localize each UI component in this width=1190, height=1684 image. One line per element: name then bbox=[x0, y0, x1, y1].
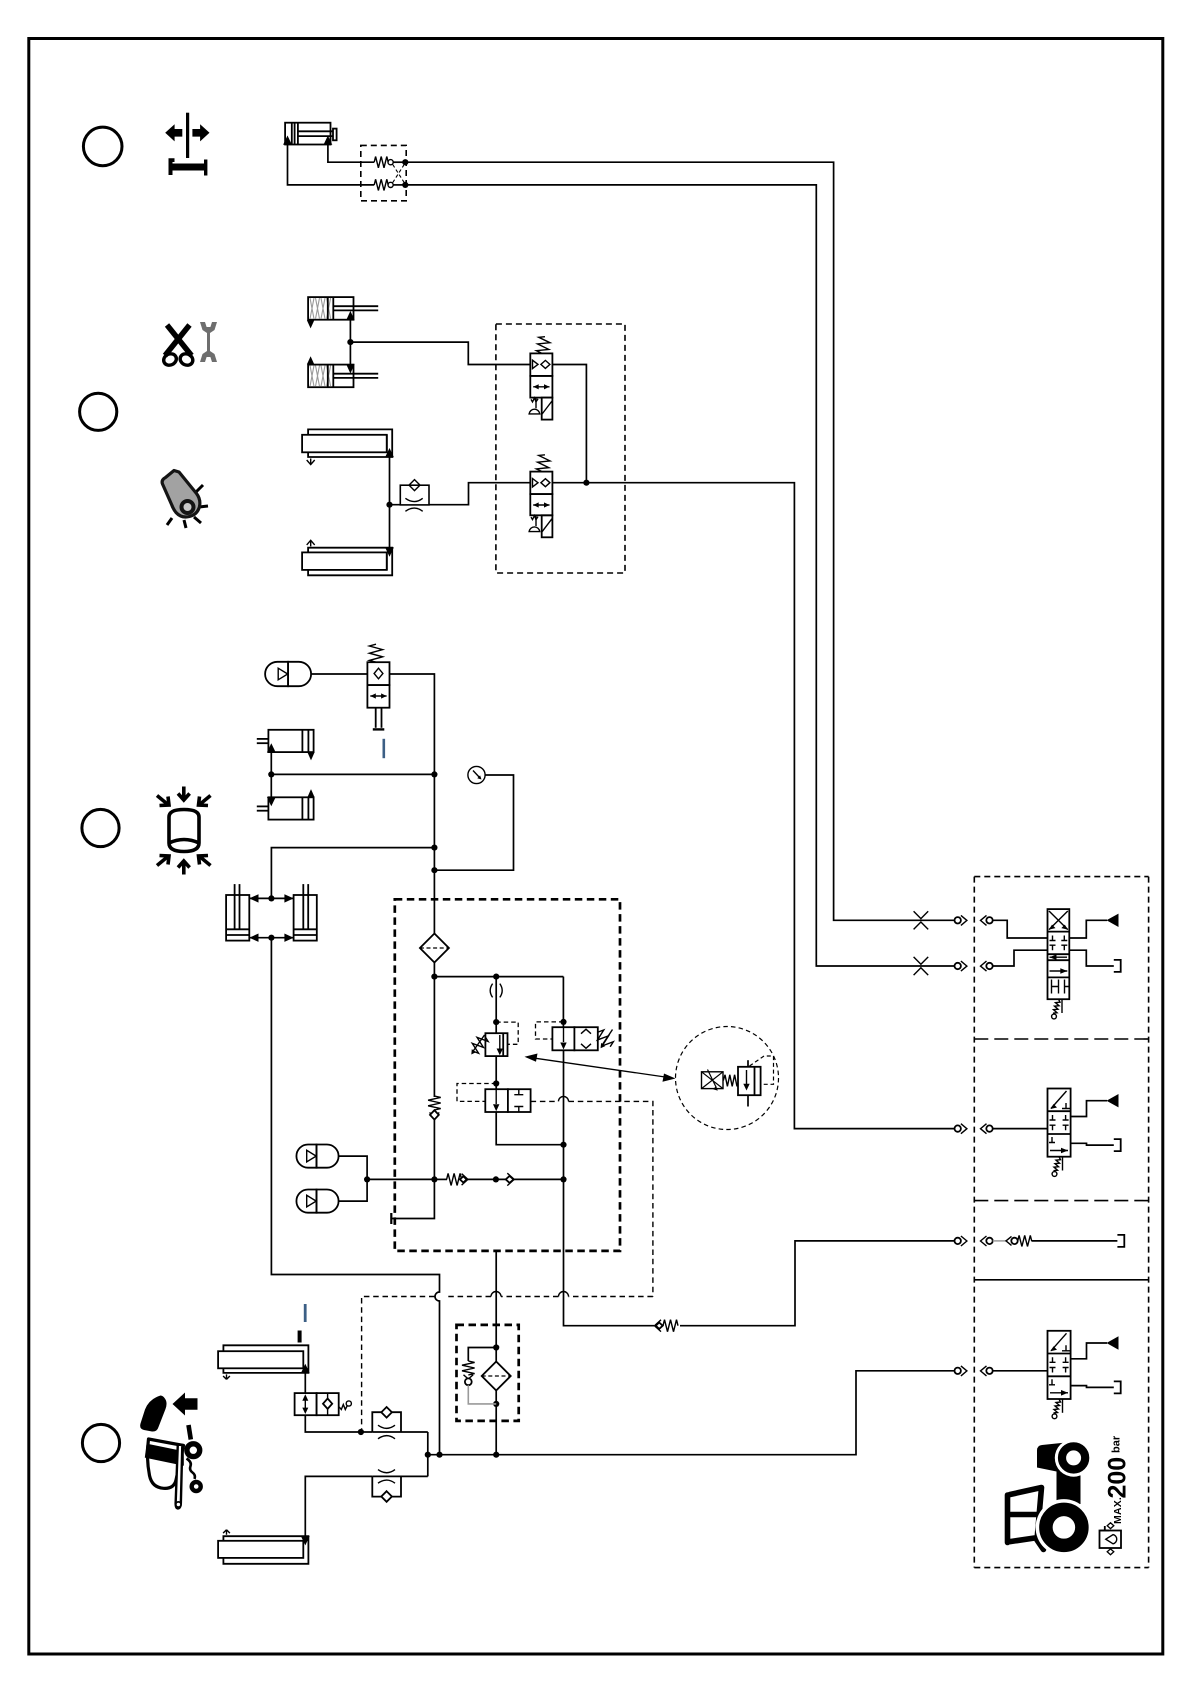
wire: section2 to tractor valve B2 bbox=[552, 483, 954, 1129]
wire: branch down through throttle bbox=[495, 977, 497, 1034]
MAX 200 bar text bbox=[1104, 1435, 1132, 1524]
cylinder C3d (right vertical) bbox=[294, 884, 317, 941]
accumulators A2/A3 bbox=[296, 1145, 338, 1168]
wire: riser branch to vertical pair bbox=[271, 848, 434, 899]
wire: V5 down to junction bbox=[305, 1415, 372, 1432]
wire: bridge to tractor box B4 bbox=[428, 1371, 955, 1455]
dashed enclosure: double pilot check valve block bbox=[361, 145, 406, 200]
coupling pictogram bbox=[1100, 1523, 1122, 1555]
svg-text:MAX.: MAX. bbox=[1112, 1497, 1124, 1524]
wire: accumulators to manifold bbox=[339, 1156, 367, 1201]
black tick bbox=[298, 1331, 302, 1343]
detail circle (proportional relief valve) bbox=[676, 1027, 779, 1130]
cylinder C5b (bottom) bbox=[218, 1530, 310, 1564]
wire: A1 to relief valve bbox=[311, 673, 367, 675]
big ram C2d (lower) bbox=[302, 540, 394, 575]
blue mark 1 bbox=[382, 739, 385, 758]
filter box F2 (thick dashed) bbox=[457, 1325, 519, 1421]
cylinder C2a (spring return knife cyl) bbox=[307, 297, 378, 328]
blue mark 2 bbox=[304, 1304, 307, 1322]
cylinder C3a bbox=[257, 730, 315, 761]
wire: pair bottom to lower frame bbox=[271, 938, 439, 1455]
wire: V2a out to junction bbox=[552, 365, 586, 483]
cylinder C3b bbox=[257, 789, 315, 820]
svg-text:bar: bar bbox=[1111, 1435, 1123, 1453]
tractor spool valve B4 bbox=[1048, 1331, 1071, 1419]
wire: B2 to pump triangle bbox=[1071, 1101, 1107, 1117]
pressure gauge G1 bbox=[468, 766, 485, 783]
function circle 3 bbox=[82, 809, 119, 846]
check+spring CK4 bbox=[655, 1241, 955, 1332]
callout arrow bbox=[525, 1054, 676, 1082]
wire: C-bridge bbox=[427, 1432, 429, 1476]
wire through filter bbox=[495, 1251, 497, 1455]
wire: PRV down to LV node bbox=[495, 1056, 497, 1089]
icon: bale compress bbox=[157, 787, 211, 875]
relief/charge valve V3 bbox=[367, 644, 389, 729]
quick couplings line3 (B2) bbox=[955, 1124, 1048, 1134]
check valve with spring CK1 (riser) bbox=[428, 977, 441, 1180]
icon: bale cylinder bbox=[169, 810, 199, 852]
cylinder C1 (top side-shift cylinder) bbox=[283, 123, 337, 145]
cylinder C5a (top) bbox=[218, 1345, 310, 1379]
svg-text:200: 200 bbox=[1104, 1457, 1132, 1499]
wire: B1 to pump triangle bbox=[1069, 920, 1107, 938]
X break marks on S1 lines bbox=[914, 911, 929, 975]
wire: C1 rod-side port to crossover valve lower line bbox=[288, 145, 375, 185]
wire: V3 to main riser bbox=[390, 674, 435, 934]
filter F1 bbox=[420, 934, 449, 963]
wire: B4 to pump triangle bbox=[1071, 1343, 1107, 1359]
icon: wrap cut bbox=[140, 1393, 201, 1509]
quick couplings line1 bbox=[955, 915, 1048, 938]
wire: RT down bbox=[563, 1050, 565, 1179]
wire: B2 to tank bbox=[1071, 1143, 1114, 1145]
filter F2 bbox=[462, 1344, 511, 1407]
wire: LV out bbox=[496, 1112, 563, 1145]
tank T1 bbox=[1114, 960, 1121, 972]
wire: B4 to tank bbox=[1071, 1386, 1114, 1388]
plugged port bbox=[392, 1179, 434, 1218]
unloading valve LV (2/2 pilot) bbox=[457, 1084, 531, 1113]
wire: to section5 supply bbox=[564, 1179, 655, 1325]
node: lower crossover output bbox=[402, 182, 408, 188]
icon: scissors bbox=[162, 325, 195, 367]
valve V2a (2/2 solenoid) bbox=[529, 336, 552, 420]
node: V2 outputs join bbox=[583, 480, 589, 486]
wire: B1 to tank bbox=[1069, 950, 1114, 966]
throttle TH1 bbox=[490, 984, 502, 998]
tractor spool valve B1 bbox=[1048, 909, 1070, 1019]
valve V5 (2/2 with roller) bbox=[295, 1393, 352, 1415]
tank T2 bbox=[1114, 1139, 1121, 1151]
wire: manifold top line bbox=[434, 976, 563, 978]
pump triangle P4 bbox=[1107, 1336, 1119, 1349]
one-way restrictor R5b bbox=[372, 1470, 428, 1502]
tractor pictogram bbox=[1008, 1439, 1093, 1556]
function circle 2 bbox=[80, 393, 117, 430]
wire: gauge to riser bbox=[434, 775, 513, 870]
wire: filter to manifold top line bbox=[433, 963, 435, 977]
icon: side-shift arrows bbox=[165, 113, 209, 176]
wire: lower line to tractor valve B1 port B bbox=[405, 185, 954, 966]
pilot check element lower bbox=[374, 179, 405, 190]
pressure reducing valve PRV bbox=[469, 1022, 519, 1056]
wire: C3a/C3b common bbox=[270, 752, 272, 797]
dashed enclosure: knife/arm valve block bbox=[496, 324, 625, 573]
icon: wrench (grey) bbox=[200, 322, 217, 362]
wire: rams common line bbox=[389, 457, 391, 548]
quick couplings line5 (B4) bbox=[955, 1366, 1048, 1376]
wire: junction to main riser bbox=[271, 773, 434, 775]
pilot line: LV to lower section (dashed) bbox=[362, 1101, 653, 1432]
function circle 1 bbox=[83, 127, 122, 166]
check valve CK3 bbox=[496, 1173, 564, 1185]
accumulator A1 bbox=[265, 662, 311, 686]
wire: upper line to tractor valve B1 port A bbox=[405, 162, 954, 920]
cylinder C2b bbox=[307, 356, 378, 387]
tank T4 bbox=[1114, 1381, 1121, 1393]
wire: C1 cap-side port to crossover valve upper line bbox=[328, 145, 374, 163]
power pack enclosure bbox=[395, 899, 620, 1251]
relief valve RT (pilot operated, adjustable) bbox=[536, 977, 615, 1051]
quick couplings line4 (B3 free return) bbox=[955, 1235, 1125, 1247]
wire: restrictor R5b to cylinder C5b bbox=[305, 1476, 372, 1536]
big ram C2c (upper) bbox=[302, 429, 394, 464]
pump triangle P2 bbox=[1107, 1094, 1119, 1107]
function circle 5 bbox=[82, 1424, 119, 1461]
wire: pair top ports bbox=[249, 894, 293, 902]
spool boxes enclosure bbox=[974, 877, 1148, 1568]
pilot check element upper bbox=[374, 157, 405, 168]
valve V2b (2/2 solenoid) bbox=[529, 454, 552, 537]
one-way restrictor R5a bbox=[372, 1407, 428, 1439]
node: upper crossover output bbox=[402, 159, 408, 165]
crossed pilot lines bbox=[393, 165, 405, 184]
wire: junction to valve V2a bbox=[350, 342, 530, 364]
check+spring CK2 on accumulator line bbox=[434, 1173, 496, 1185]
pump triangle P1 bbox=[1107, 914, 1119, 927]
wire: C5a to valve V5 bbox=[304, 1373, 306, 1393]
quick couplings line2 bbox=[955, 950, 1048, 971]
wire: pair bottom ports bbox=[249, 934, 293, 942]
tractor spool valve B2 bbox=[1048, 1089, 1071, 1177]
cylinder C3c (left vertical) bbox=[226, 884, 249, 941]
wire: C2a/C2b common bbox=[349, 320, 351, 365]
one-way restrictor R2 bbox=[390, 480, 531, 512]
icon: knife (grey blade) bbox=[162, 471, 208, 529]
